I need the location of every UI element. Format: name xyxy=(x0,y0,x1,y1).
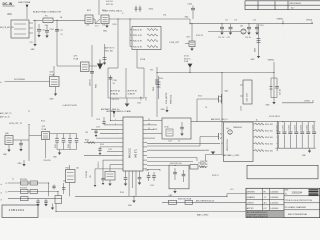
svg-text:R153: R153 xyxy=(153,129,157,131)
svg-text:R172 330: R172 330 xyxy=(20,188,27,190)
svg-text:H.I: H.I xyxy=(264,191,267,193)
svg-text:C130: C130 xyxy=(113,80,117,82)
resistor network R210-R213 xyxy=(130,19,161,50)
IC U43 xyxy=(240,80,252,111)
wire xyxy=(53,19,85,21)
svg-text:CR1: CR1 xyxy=(163,15,166,17)
wire xyxy=(8,198,62,200)
svg-text:GND: GND xyxy=(266,105,271,107)
wire xyxy=(147,137,200,147)
wire xyxy=(147,142,220,144)
svg-text:ADP PW 1B: ADP PW 1B xyxy=(128,90,138,93)
transistor Q79 xyxy=(74,55,98,71)
ground xyxy=(266,102,276,107)
svg-text:R113 1K: R113 1K xyxy=(184,58,191,60)
wire xyxy=(132,171,134,188)
svg-text:R140: R140 xyxy=(159,78,163,80)
text AVR_THERM xyxy=(196,200,215,203)
svg-text:R143: R143 xyxy=(55,144,57,148)
svg-text:25: 25 xyxy=(148,119,150,121)
capacitor C134 xyxy=(101,178,104,185)
svg-text:Q75: Q75 xyxy=(42,126,46,128)
resistor R101 xyxy=(255,39,261,53)
ground xyxy=(3,145,11,157)
wire xyxy=(13,139,29,141)
ground xyxy=(31,44,37,51)
ground xyxy=(103,24,109,33)
svg-text:R170 330: R170 330 xyxy=(20,179,27,181)
resistor R140 xyxy=(153,80,159,91)
capacitor C144 xyxy=(300,122,304,149)
svg-text:IBM CONFIDENTIAL: IBM CONFIDENTIAL xyxy=(288,213,308,216)
IBM logo xyxy=(309,189,319,195)
net label DOCKINGB xyxy=(0,79,25,84)
svg-text:C186 1U: C186 1U xyxy=(90,79,92,86)
svg-text:44 /: 44 / xyxy=(291,8,295,10)
svg-text:R279 1K: R279 1K xyxy=(106,4,114,6)
wire xyxy=(162,201,246,203)
capacitor C142 xyxy=(152,172,156,181)
svg-text:DESIGN: DESIGN xyxy=(247,191,255,193)
resistor R162 xyxy=(190,163,206,169)
svg-text:B+: B+ xyxy=(256,120,258,122)
svg-text:C74: C74 xyxy=(253,20,256,22)
wire xyxy=(91,45,93,117)
svg-text:GND: GND xyxy=(18,163,23,165)
net label +5VSU xyxy=(304,101,311,103)
svg-text:1 ADP_PWR2_20A 5 1: 1 ADP_PWR2_20A 5 1 xyxy=(103,9,122,12)
svg-text:C132: C132 xyxy=(108,149,112,151)
net label BAT_SMELL_LOW xyxy=(223,154,240,157)
wire xyxy=(100,133,119,135)
net label PGOOD xyxy=(44,160,52,162)
svg-text:DOCKINGB: DOCKINGB xyxy=(14,79,25,81)
wire xyxy=(282,100,313,103)
svg-text:R158 1K: R158 1K xyxy=(212,175,219,177)
ground xyxy=(51,204,54,210)
wire xyxy=(29,135,42,137)
wire xyxy=(147,165,169,167)
wire xyxy=(277,122,279,151)
wire xyxy=(190,23,313,25)
svg-text:U45: U45 xyxy=(76,168,79,170)
power arrow xyxy=(97,60,103,70)
svg-text:R117 10K: R117 10K xyxy=(105,51,114,53)
wire xyxy=(8,191,58,193)
svg-text:C70: C70 xyxy=(42,30,45,32)
svg-text:R140: R140 xyxy=(153,87,155,91)
svg-text:C139 10U: C139 10U xyxy=(86,170,88,178)
svg-text:C143: C143 xyxy=(150,185,154,187)
net label ADP/BATT+ plane xyxy=(107,110,132,113)
net label A_B_C14 xyxy=(106,1,114,6)
optocoupler U45 xyxy=(66,168,76,183)
ground xyxy=(169,189,177,197)
net label BAT_CHG2 xyxy=(197,214,209,217)
wire xyxy=(136,50,138,69)
capacitor C202 xyxy=(45,25,54,38)
svg-text:1: 1 xyxy=(115,119,116,121)
capacitor C192 xyxy=(44,199,47,207)
ground xyxy=(53,150,61,159)
svg-text:REV.2089-B: REV.2089-B xyxy=(290,3,302,5)
dual diode CR2 xyxy=(108,68,144,98)
svg-text:Q80: Q80 xyxy=(5,133,9,135)
svg-text:ADP_DET_T5: ADP_DET_T5 xyxy=(0,112,11,115)
capacitor C142 xyxy=(288,122,292,149)
wire xyxy=(221,132,223,147)
capacitor C178 C179 xyxy=(111,99,120,101)
wire xyxy=(206,147,223,161)
wire xyxy=(191,121,316,123)
svg-text:R153 100: R153 100 xyxy=(265,137,273,139)
wire xyxy=(96,137,119,139)
transistor Q77 xyxy=(187,24,196,51)
wire xyxy=(147,149,205,151)
ground xyxy=(125,98,130,107)
text ADP rows xyxy=(111,90,138,96)
ground xyxy=(251,56,261,61)
label TMB048 xyxy=(233,127,242,129)
capacitor C80 xyxy=(19,140,23,151)
wire xyxy=(84,155,119,157)
svg-text:GND: GND xyxy=(103,31,108,33)
svg-text:10U25V: 10U25V xyxy=(289,125,291,130)
wire xyxy=(221,73,223,133)
capacitor C139 labels xyxy=(86,170,92,178)
svg-text:Q76: Q76 xyxy=(86,25,89,27)
svg-text:R104: R104 xyxy=(260,25,264,27)
wire xyxy=(147,160,193,162)
wire xyxy=(8,182,49,184)
wire xyxy=(157,72,274,74)
svg-text:4 B C4 20B L5: 4 B C4 20B L5 xyxy=(269,116,280,118)
svg-text:C69: C69 xyxy=(45,25,48,27)
capacitor C160 xyxy=(173,168,177,180)
svg-text:GND: GND xyxy=(31,49,36,51)
wire xyxy=(57,192,59,197)
wire xyxy=(92,128,119,130)
capacitor C133 xyxy=(180,122,184,136)
svg-text:ADP PW 1A: ADP PW 1A xyxy=(111,90,121,93)
resistor pack RP1 xyxy=(105,171,115,186)
wire xyxy=(275,147,315,149)
capacitor C72 xyxy=(218,24,225,39)
capacitor C76 xyxy=(275,78,281,98)
wire xyxy=(110,164,119,166)
svg-text:R213 4.7K: R213 4.7K xyxy=(133,47,143,49)
wire xyxy=(68,165,70,170)
svg-text:DCIN_CRT: DCIN_CRT xyxy=(170,42,180,44)
capacitor C131 xyxy=(98,147,101,155)
title block xyxy=(246,188,320,218)
svg-text:BAT_CHG2: BAT_CHG2 xyxy=(197,214,209,217)
net label BAT_DRV1 xyxy=(211,118,228,121)
wire xyxy=(94,169,97,187)
svg-text:VINSU: VINSU xyxy=(268,60,275,62)
capacitor C137 xyxy=(138,171,142,185)
svg-text:T5: T5 xyxy=(28,111,30,113)
wire xyxy=(273,62,275,102)
wire xyxy=(55,204,57,212)
svg-text:C72: C72 xyxy=(225,20,228,22)
capacitor C141 xyxy=(145,170,150,181)
wire xyxy=(189,19,191,24)
svg-text:R210 4.7K: R210 4.7K xyxy=(133,30,143,32)
svg-text:C73: C73 xyxy=(234,20,237,22)
capacitor C208 xyxy=(135,6,138,13)
svg-text:+5VSU: +5VSU xyxy=(304,101,311,103)
svg-text:C72 .1U: C72 .1U xyxy=(218,37,225,39)
wire xyxy=(68,183,70,197)
net label VINSU 2 xyxy=(268,60,275,62)
wire xyxy=(117,19,119,68)
diode D32 xyxy=(103,44,107,65)
svg-text:C182: C182 xyxy=(137,103,141,105)
svg-text:APPRV: APPRV xyxy=(247,207,255,210)
svg-text:U42 ETL: U42 ETL xyxy=(136,148,138,158)
net label ADP_DET xyxy=(0,112,11,115)
net label DCIN_CRT_T5 xyxy=(9,123,22,125)
svg-text:LOW 14.8V: LOW 14.8V xyxy=(247,92,249,102)
svg-text:R152 100: R152 100 xyxy=(265,131,273,133)
svg-text:4 B C1: 4 B C1 xyxy=(184,56,189,58)
resistor R151 xyxy=(253,123,278,126)
svg-text:R145: R145 xyxy=(100,144,104,146)
net label GND_PWRA xyxy=(18,1,31,19)
wire xyxy=(95,168,119,170)
svg-text:SCHA 2A: SCHA 2A xyxy=(111,93,119,96)
svg-text:R155 100: R155 100 xyxy=(265,151,273,153)
svg-text:D40: D40 xyxy=(63,181,66,183)
svg-text:+ LAYOUT NOTE: + LAYOUT NOTE xyxy=(62,104,78,107)
IC U42 xyxy=(119,117,147,171)
svg-text:ADP_ID_T5: ADP_ID_T5 xyxy=(0,116,10,119)
svg-text:10U25V: 10U25V xyxy=(306,125,308,130)
svg-text:SCHB 2B: SCHB 2B xyxy=(128,94,136,96)
svg-text:KB_PS_MO_TB: KB_PS_MO_TB xyxy=(0,27,14,29)
passive R144 xyxy=(68,134,72,150)
svg-text:MMBT3904: MMBT3904 xyxy=(171,95,173,104)
zener D31 xyxy=(270,78,278,98)
svg-text:PGOOD: PGOOD xyxy=(44,160,52,162)
net label VIN15 xyxy=(306,20,313,24)
wire xyxy=(57,149,77,151)
svg-text:R210A: R210A xyxy=(140,58,146,61)
svg-text:GND: GND xyxy=(251,59,256,61)
svg-text:C129: C129 xyxy=(96,127,100,129)
passive C81 xyxy=(62,134,66,150)
wire xyxy=(110,75,112,121)
vertical text PWR_ADPOK xyxy=(165,92,173,104)
svg-text:CHECK: CHECK xyxy=(247,202,255,204)
svg-text:R144: R144 xyxy=(68,144,70,148)
ground xyxy=(128,196,136,207)
transistor Q67 xyxy=(165,127,174,137)
svg-text:PL4B: PL4B xyxy=(74,58,79,60)
filter box FL2 xyxy=(169,163,189,189)
label CR14 xyxy=(149,9,154,11)
svg-text:MAX1631: MAX1631 xyxy=(129,147,132,158)
transistor Q4 xyxy=(226,128,232,134)
connector pin J25 xyxy=(1,182,8,186)
capacitor C209 xyxy=(139,6,142,13)
capacitor C190 xyxy=(52,185,55,190)
svg-text:GND PWRA: GND PWRA xyxy=(18,1,31,4)
transistor Q75 xyxy=(42,126,50,139)
ground xyxy=(50,87,58,101)
wire xyxy=(112,18,190,20)
value labels xyxy=(12,13,264,194)
transistor Q71 xyxy=(208,26,246,35)
svg-text:PS27: PS27 xyxy=(66,168,70,170)
svg-text:C136 1U: C136 1U xyxy=(98,161,100,168)
svg-text:ADP OK T5: ADP OK T5 xyxy=(105,47,114,50)
svg-text:TMB048-05: TMB048-05 xyxy=(233,127,242,129)
net label ADP_PWR2_20A xyxy=(103,9,122,12)
net label 20B xyxy=(269,116,280,118)
text BLACK HEAD CONNECTOR xyxy=(33,11,61,14)
capacitor labels xyxy=(200,161,208,169)
resistor R141 xyxy=(157,76,161,99)
wire xyxy=(28,125,30,162)
wire xyxy=(104,124,119,126)
vertical text C136 xyxy=(98,161,100,168)
passive C82 xyxy=(75,134,79,150)
wire xyxy=(56,211,246,213)
capacitor C140 xyxy=(276,122,280,149)
wire xyxy=(75,195,227,197)
resistor R175 xyxy=(55,196,62,204)
svg-text:C128: C128 xyxy=(96,119,100,121)
wire xyxy=(147,120,162,122)
capacitor C141 xyxy=(282,122,286,149)
svg-text:BRHSTKWXMNAHQB: BRHSTKWXMNAHQB xyxy=(247,216,269,218)
diode D30 xyxy=(95,19,100,24)
capacitor C314 xyxy=(185,3,196,19)
svg-text:L5: L5 xyxy=(6,192,8,194)
sheet number box xyxy=(2,205,38,218)
resistor R160 xyxy=(169,200,177,204)
resistor R174 xyxy=(21,197,29,201)
svg-text:Q79: Q79 xyxy=(74,55,78,57)
svg-text:ADP/BATT+_AND_B+: ADP/BATT+_AND_B+ xyxy=(101,108,121,111)
svg-text:Q78: Q78 xyxy=(102,25,105,27)
svg-text:C163 1UF: C163 1UF xyxy=(200,161,208,163)
battery pack BT1 xyxy=(224,122,254,162)
ground xyxy=(302,148,311,157)
svg-text:C74 1U: C74 1U xyxy=(245,37,252,39)
wire xyxy=(98,0,100,15)
svg-text:DRAWN: DRAWN xyxy=(247,196,255,199)
svg-text:C160 C161 10U: C160 C161 10U xyxy=(170,163,183,165)
svg-text:VINSU: VINSU xyxy=(277,19,284,21)
label DC-IN xyxy=(3,2,15,6)
transistor Q64 xyxy=(197,91,229,104)
resistor R171 xyxy=(30,181,38,185)
svg-text:R209: R209 xyxy=(113,24,117,26)
svg-text:2: 2 xyxy=(115,124,116,126)
transistor Q80 xyxy=(5,133,13,144)
capacitor C128 xyxy=(102,117,105,125)
wire xyxy=(147,169,160,171)
svg-text:R211 4.7K: R211 4.7K xyxy=(133,35,143,37)
wire xyxy=(100,146,119,148)
svg-text:C180: C180 xyxy=(141,97,143,101)
svg-text:10U25V: 10U25V xyxy=(295,125,297,130)
svg-text:VIN15: VIN15 xyxy=(306,20,313,22)
svg-text:SIZE: SIZE xyxy=(285,189,289,191)
svg-text:10U25V: 10U25V xyxy=(300,125,302,130)
svg-text:14/04/00: 14/04/00 xyxy=(270,191,279,193)
connector J24 xyxy=(7,12,33,38)
wire xyxy=(147,158,197,162)
wire xyxy=(103,159,119,161)
note text xyxy=(105,47,114,53)
svg-text:C71: C71 xyxy=(60,30,63,32)
wire xyxy=(34,20,36,44)
svg-text:C202: C202 xyxy=(50,29,54,31)
resistor R154 xyxy=(253,142,278,145)
wire xyxy=(147,124,157,126)
wire xyxy=(258,24,260,56)
capacitor C138 xyxy=(124,171,128,186)
net label DCIN_CRT xyxy=(170,42,190,44)
svg-text:C165 1UF: C165 1UF xyxy=(200,167,208,169)
transistor Q76 xyxy=(85,10,95,24)
svg-text:Q74: Q74 xyxy=(50,71,54,73)
svg-text:14/04/00: 14/04/00 xyxy=(270,202,279,204)
net label ADP_ID xyxy=(0,116,10,119)
resistor R172 xyxy=(20,188,28,194)
capacitor C145 xyxy=(306,122,310,149)
svg-text:BLACK HEAD CONNECTOR: BLACK HEAD CONNECTOR xyxy=(33,11,61,14)
svg-text:PL4B: PL4B xyxy=(42,129,47,131)
capacitor C74 xyxy=(245,24,252,39)
resistor R152 xyxy=(253,129,278,132)
vertical text MMSF3P02HD xyxy=(227,138,229,151)
svg-text:R120: R120 xyxy=(41,121,45,123)
net label ADP/BATT top xyxy=(101,108,121,117)
capacitor C71 xyxy=(55,30,63,33)
resistor R142 xyxy=(84,140,119,144)
svg-text:C181: C181 xyxy=(146,97,148,101)
svg-text:C178 C179: C178 C179 xyxy=(111,99,120,101)
svg-text:R116: R116 xyxy=(198,96,202,98)
resistor R155 xyxy=(253,149,278,152)
resistor R173 xyxy=(30,190,38,194)
protection box U44 xyxy=(153,118,191,139)
svg-text:DCIN_CRT_T5: DCIN_CRT_T5 xyxy=(9,123,22,125)
wire xyxy=(45,140,47,159)
svg-text:R181: R181 xyxy=(96,84,98,88)
resistor R161 xyxy=(178,198,193,204)
power arrow xyxy=(188,64,193,73)
svg-text:Q71: Q71 xyxy=(240,26,243,28)
wire xyxy=(196,99,198,122)
ground xyxy=(18,160,26,166)
svg-text:GND: GND xyxy=(161,109,166,111)
wire xyxy=(56,20,58,66)
resistor R153 xyxy=(253,136,278,139)
svg-text:BAT-SMELL_LOW5: BAT-SMELL_LOW5 xyxy=(223,154,240,157)
capacitor C75 xyxy=(255,24,259,35)
wire xyxy=(48,183,50,196)
svg-text:PWR_ADPOK: PWR_ADPOK xyxy=(165,92,168,104)
wire xyxy=(5,81,50,83)
text layout note xyxy=(62,104,78,107)
net label stack xyxy=(184,56,191,64)
